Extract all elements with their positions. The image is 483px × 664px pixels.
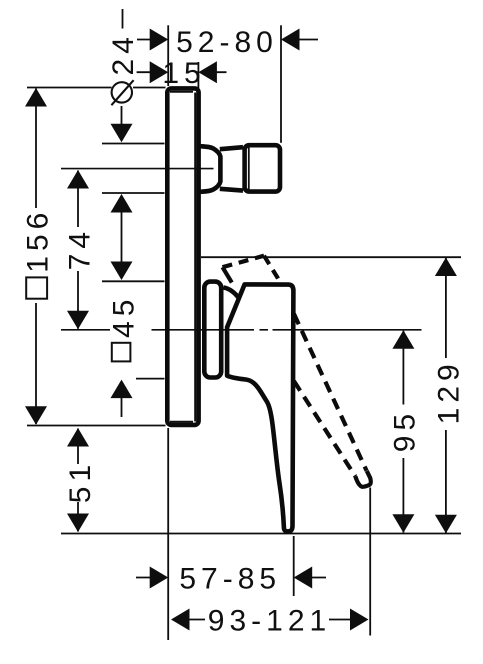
svg-text:95: 95 xyxy=(389,409,422,452)
svg-text:156: 156 xyxy=(22,208,55,273)
svg-text:57-85: 57-85 xyxy=(179,563,281,596)
svg-text:129: 129 xyxy=(433,359,466,424)
svg-text:45: 45 xyxy=(108,295,141,338)
svg-text:51: 51 xyxy=(64,460,97,503)
svg-text:74: 74 xyxy=(64,227,97,270)
svg-text:15: 15 xyxy=(162,57,205,90)
svg-text:93-121: 93-121 xyxy=(208,605,331,638)
svg-text:52-80: 52-80 xyxy=(176,26,278,59)
svg-text:24: 24 xyxy=(107,32,140,75)
